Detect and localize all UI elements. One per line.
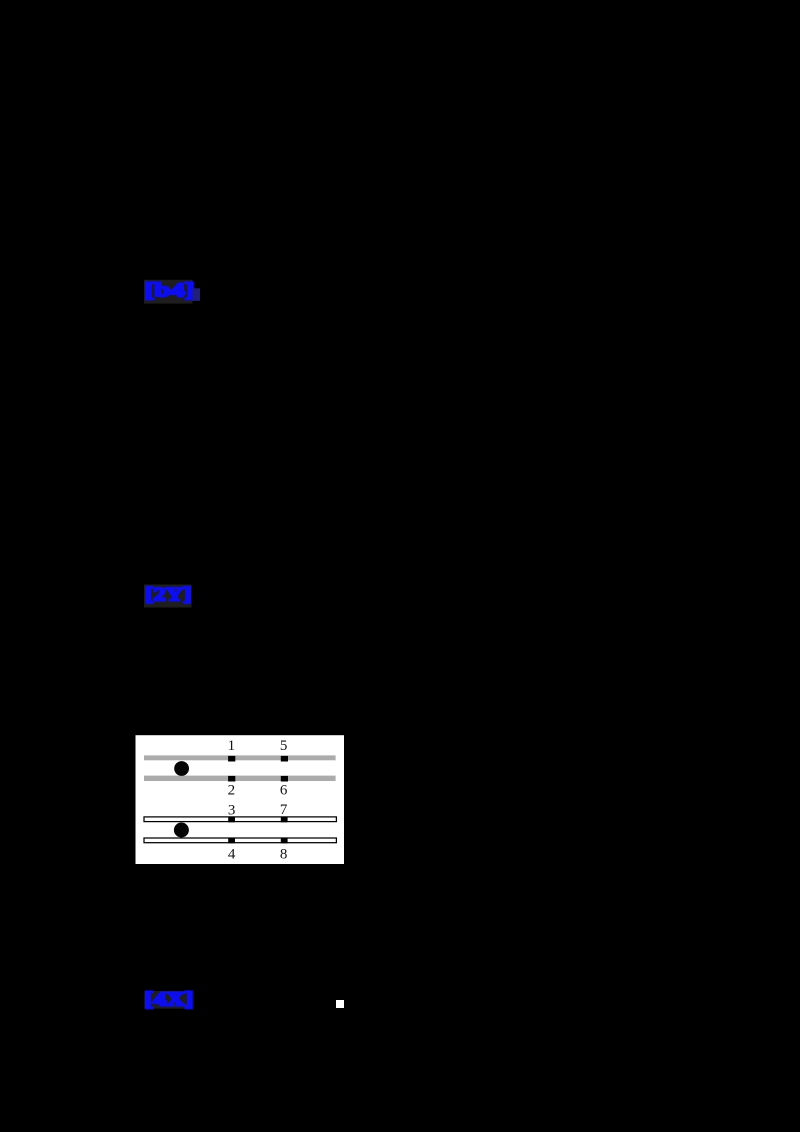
- marker square 5: [281, 756, 288, 762]
- svg-text:5: 5: [280, 738, 288, 754]
- ball B1: [174, 761, 189, 776]
- outlined rail bottom: [144, 838, 336, 843]
- svg-text:[4X]: [4X]: [145, 989, 194, 1011]
- marker square 3: [228, 818, 235, 823]
- link L1: [145, 280, 195, 302]
- link L2: [145, 585, 192, 606]
- gray rail bottom: [144, 776, 336, 781]
- marker square 6: [281, 776, 288, 782]
- outlined rail top: [144, 817, 336, 822]
- link L3: [145, 989, 194, 1011]
- svg-text:4: 4: [228, 847, 236, 863]
- link L2 halo: [144, 585, 192, 608]
- link L1 subscript block: [193, 288, 201, 301]
- link L3 halo: [144, 991, 192, 1009]
- marker square 7: [281, 818, 288, 823]
- white QED square: [336, 1000, 344, 1008]
- link L1 halo: [144, 280, 193, 304]
- marker square 8: [281, 839, 288, 844]
- svg-text:6: 6: [280, 783, 288, 799]
- marker square 4: [228, 839, 235, 844]
- marker square 1: [228, 756, 235, 762]
- svg-text:[2Y]: [2Y]: [145, 585, 192, 606]
- ball B2: [174, 823, 189, 838]
- svg-text:2: 2: [228, 783, 236, 799]
- svg-text:8: 8: [280, 847, 288, 863]
- figure panel background: [136, 735, 345, 864]
- marker square 2: [228, 776, 235, 782]
- svg-text:[b4]: [b4]: [145, 280, 195, 302]
- svg-text:7: 7: [280, 802, 288, 818]
- gray rail top: [144, 755, 336, 760]
- svg-text:1: 1: [228, 738, 236, 754]
- svg-text:3: 3: [228, 802, 236, 818]
